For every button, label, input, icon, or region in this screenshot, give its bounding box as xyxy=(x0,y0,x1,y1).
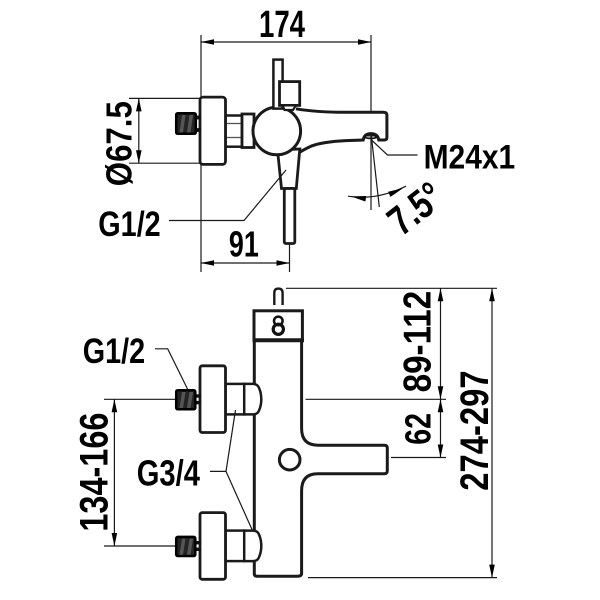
svg-text:62: 62 xyxy=(398,413,439,445)
svg-text:89-112: 89-112 xyxy=(397,291,440,393)
svg-text:134-166: 134-166 xyxy=(72,413,116,532)
svg-text:G3/4: G3/4 xyxy=(137,453,200,494)
svg-text:G1/2: G1/2 xyxy=(98,204,160,244)
svg-text:Ø67.5: Ø67.5 xyxy=(98,101,139,186)
svg-text:91: 91 xyxy=(229,224,259,265)
svg-text:274-297: 274-297 xyxy=(453,370,497,490)
svg-text:M24x1: M24x1 xyxy=(424,138,516,176)
svg-text:174: 174 xyxy=(259,4,305,46)
svg-text:G1/2: G1/2 xyxy=(83,331,145,371)
